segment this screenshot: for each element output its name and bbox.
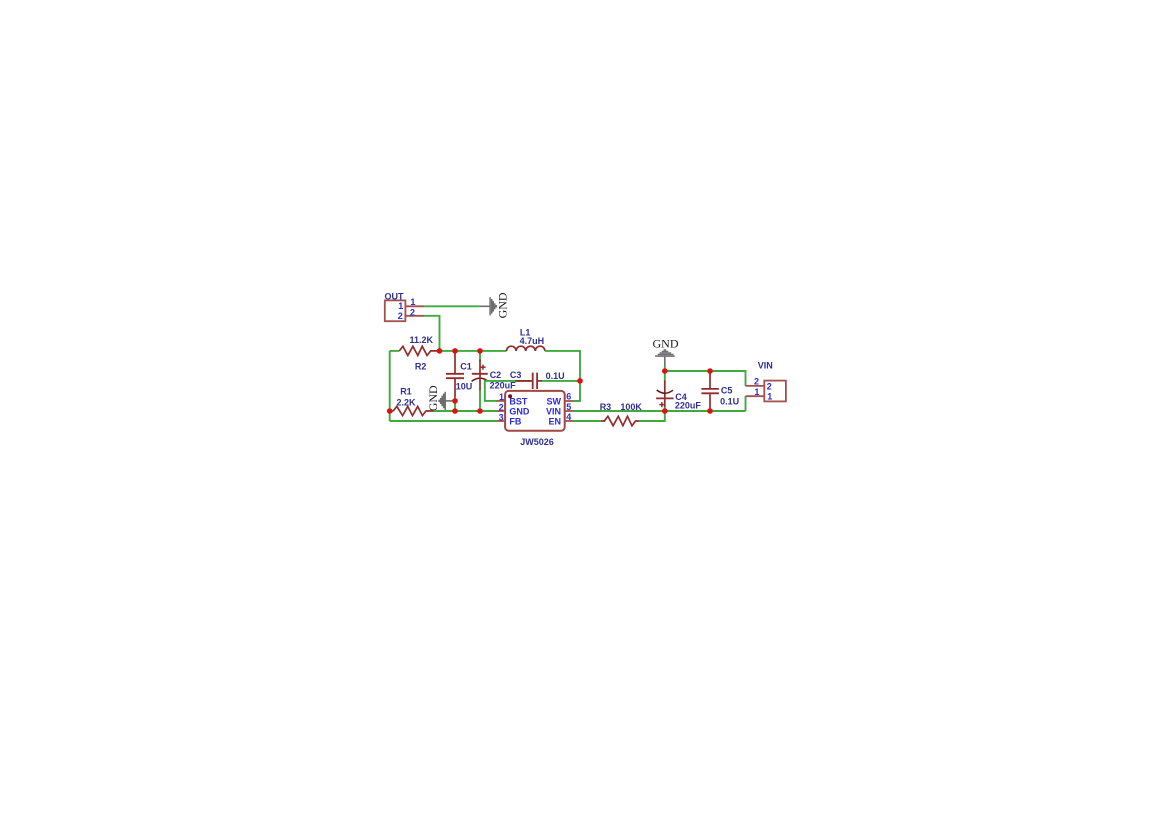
connector J-VIN pin 2 stub [746, 385, 765, 387]
op-amp U1 pin number 2 [499, 402, 504, 412]
op-amp U1 pin name VIN [546, 406, 561, 416]
svg-text:4: 4 [566, 412, 571, 422]
wire GND bottom rail [434, 410, 498, 412]
op-amp U1 pin name EN [548, 416, 561, 426]
connector J-VIN label VIN [758, 361, 773, 371]
capacitor C3 refdes [510, 370, 522, 380]
resistor R3 value 100K [620, 402, 642, 412]
connector J-OUT outer pin number 1 [410, 297, 415, 307]
inductor L1 [507, 346, 545, 351]
junction GNDrail/C1 [452, 408, 458, 414]
wire L1 to SW corner [545, 351, 580, 381]
svg-text:5: 5 [566, 402, 571, 412]
svg-text:10U: 10U [456, 382, 473, 392]
svg-text:VIN: VIN [758, 361, 773, 371]
op-amp U1 JW5026 body [505, 391, 565, 431]
svg-text:GND: GND [426, 385, 440, 411]
op-amp U1 pin number 5 [566, 402, 571, 412]
svg-text:1: 1 [499, 392, 504, 402]
connector J-VIN [764, 381, 786, 402]
op-amp U1 pin 2 stub [497, 410, 505, 412]
svg-text:11.2K: 11.2K [410, 335, 434, 345]
connector J-VIN outer pin number 2 [754, 377, 759, 387]
capacitor C4 (polarized) [656, 371, 674, 411]
capacitor C1 refdes [460, 361, 472, 371]
inductor L1 refdes [520, 328, 531, 338]
op-amp U1 pin number 3 [499, 412, 504, 422]
inductor L1 value 4.7uH [520, 336, 545, 346]
svg-text:JW5026: JW5026 [520, 437, 554, 447]
wire GND top rail [665, 371, 746, 386]
ground GND3 (up-pointing, above C4) [655, 350, 675, 367]
capacitor C2 (polarized) [472, 351, 488, 411]
wire SW vertical to pin 6 [573, 381, 580, 401]
op-amp U1 pin name SW [547, 396, 562, 406]
wire VIN row pin5 to C4 [573, 410, 746, 412]
svg-text:R3: R3 [600, 402, 612, 412]
svg-text:220uF: 220uF [490, 381, 517, 391]
svg-text:2: 2 [754, 377, 759, 387]
wire R2 left lead [390, 350, 400, 352]
ground GND1 (right-pointing, near OUT) [480, 297, 497, 315]
capacitor C3 value 0.1U [546, 371, 565, 381]
wire OUT pin1 to GND [424, 305, 480, 307]
capacitor C5 value 0.1U [720, 396, 739, 406]
svg-text:R1: R1 [400, 386, 412, 396]
junction C1/GND [452, 398, 458, 404]
svg-text:2: 2 [499, 402, 504, 412]
wire FB row [390, 420, 498, 422]
junction VOUT/C1 [452, 348, 458, 354]
svg-text:100K: 100K [620, 402, 642, 412]
connector J-OUT outer pin number 2 [410, 308, 415, 318]
resistor R2 refdes [415, 362, 427, 372]
capacitor C2 refdes [490, 370, 502, 380]
ground GND3 text [653, 337, 679, 351]
junction SW/C3 [577, 378, 583, 384]
svg-text:C5: C5 [721, 385, 733, 395]
svg-text:GND: GND [509, 406, 530, 416]
capacitor C2 value 220uF [490, 381, 517, 391]
svg-text:C1: C1 [460, 361, 472, 371]
svg-text:1: 1 [398, 301, 403, 311]
resistor R2 value 11.2K [410, 335, 434, 345]
ground GND2 text [426, 385, 440, 411]
op-amp U1 pin 5 stub [565, 410, 573, 412]
connector J-OUT inner pin number 1 [398, 301, 403, 311]
junction GNDtoprail/C4 [662, 368, 668, 374]
svg-text:GND: GND [653, 337, 679, 351]
connector J-VIN pin 1 stub [746, 395, 765, 397]
capacitor C5 [701, 371, 719, 411]
op-amp U1 pin number 4 [566, 412, 571, 422]
svg-text:4.7uH: 4.7uH [520, 336, 545, 346]
op-amp U1 pin1 indicator dot [508, 394, 512, 398]
op-amp U1 pin 4 stub [565, 420, 573, 422]
wire FB left vertical rail [389, 351, 391, 421]
svg-text:SW: SW [547, 396, 562, 406]
junction VINrail/C4 [662, 408, 668, 414]
wire C3 right to SW net [542, 380, 580, 382]
svg-text:2: 2 [767, 381, 772, 391]
op-amp U1 pin number 6 [566, 392, 571, 402]
svg-text:BST: BST [509, 396, 528, 406]
svg-text:1: 1 [767, 392, 772, 402]
connector J-VIN inner pin number 1 [767, 392, 772, 402]
op-amp U1 pin 6 stub [565, 400, 573, 402]
junction VOUT/C2 [477, 348, 483, 354]
ground GND1 text [496, 292, 510, 318]
capacitor C5 refdes [721, 385, 733, 395]
op-amp U1 pin number 1 [499, 392, 504, 402]
svg-text:2.2K: 2.2K [397, 397, 417, 407]
capacitor C3 (horizontal) [515, 373, 542, 389]
resistor R3 [601, 416, 640, 425]
wire VIN rail to connector corner [745, 396, 747, 411]
ground GND2 (left-pointing, near C1) [439, 392, 455, 410]
wire EN row pin4 [573, 420, 601, 422]
op-amp U1 pin 3 stub [497, 420, 505, 422]
wire R3 to VIN rail [640, 411, 665, 421]
resistor R3 refdes [600, 402, 612, 412]
resistor R1 left lead [390, 410, 394, 412]
svg-text:C3: C3 [510, 370, 522, 380]
connector J-VIN inner pin number 2 [767, 381, 772, 391]
svg-text:C2: C2 [490, 370, 502, 380]
capacitor C2 plus sign [480, 365, 485, 370]
junction VINrail/C5 [707, 408, 713, 414]
connector J-OUT label OUT [385, 292, 405, 302]
connector J-OUT [385, 300, 406, 321]
capacitor C4 value 220uF [675, 400, 702, 410]
svg-text:6: 6 [566, 392, 571, 402]
junction R1/FB rail [387, 408, 393, 414]
capacitor C1 value 10U [456, 382, 473, 392]
resistor R1 [393, 406, 433, 415]
junction GNDrail/C2 [477, 408, 483, 414]
svg-text:3: 3 [499, 412, 504, 422]
svg-text:1: 1 [410, 297, 415, 307]
connector J-OUT pin 2 stub [405, 315, 424, 317]
resistor R1 value 2.2K [397, 397, 417, 407]
junction GNDtoprail/C5 [707, 368, 713, 374]
wire C3 left / BST riser [485, 381, 531, 401]
op-amp U1 pin name FB [509, 416, 521, 426]
connector J-VIN outer pin number 1 [754, 387, 759, 397]
connector J-OUT inner pin number 2 [398, 311, 403, 321]
op-amp U1 refdes JW5026 [520, 437, 554, 447]
op-amp U1 pin name BST [509, 396, 528, 406]
capacitor C4 refdes [675, 392, 687, 402]
svg-text:VIN: VIN [546, 406, 561, 416]
wire GND3 to top rail [664, 366, 666, 371]
wire OUT pin2 to VOUT rail [424, 316, 440, 351]
svg-text:2: 2 [398, 311, 403, 321]
svg-text:0.1U: 0.1U [546, 371, 565, 381]
op-amp U1 pin 1 stub [497, 400, 505, 402]
svg-text:GND: GND [496, 292, 510, 318]
junction VOUT/OUT2 [437, 348, 443, 354]
svg-text:1: 1 [754, 387, 759, 397]
resistor R1 refdes [400, 386, 412, 396]
svg-text:2: 2 [410, 308, 415, 318]
svg-text:R2: R2 [415, 362, 427, 372]
svg-text:220uF: 220uF [675, 400, 702, 410]
svg-text:EN: EN [548, 416, 561, 426]
op-amp U1 pin name GND [509, 406, 530, 416]
connector J-OUT pin 1 stub [405, 305, 424, 307]
wire VOUT top rail [437, 350, 506, 352]
resistor R2 [399, 346, 437, 355]
capacitor C1 [446, 351, 464, 411]
svg-text:0.1U: 0.1U [720, 396, 739, 406]
capacitor C4 plus sign [659, 402, 664, 407]
svg-text:FB: FB [509, 416, 521, 426]
